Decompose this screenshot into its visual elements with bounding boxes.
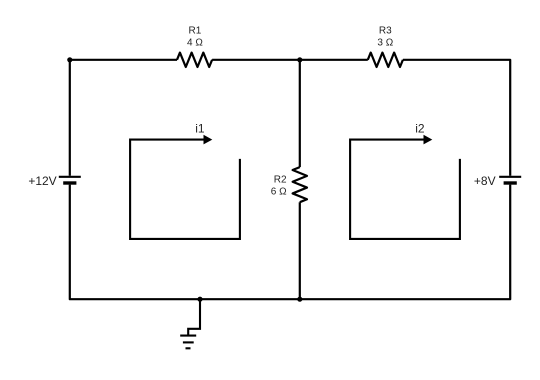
- junction dot node A (top-left): [67, 57, 72, 62]
- svg-text:+8V: +8V: [474, 174, 496, 188]
- svg-text:R2: R2: [274, 174, 287, 185]
- svg-text:+12V: +12V: [28, 174, 56, 188]
- battery V2 plates (+8V source): [499, 177, 521, 183]
- junction dot node B (top-middle): [297, 57, 302, 62]
- svg-text:6 Ω: 6 Ω: [271, 187, 287, 198]
- wire left: battery V1 negative plate down to bottom-left corner, bottom rail, and up to battery V2 negative plate: [70, 185, 510, 300]
- wire node B to R3 left lead: [300, 59, 368, 61]
- svg-text:R3: R3: [379, 26, 392, 37]
- mesh current loop i1: [130, 135, 240, 239]
- resistor R2: [293, 167, 307, 202]
- wire left: node A down to battery V1 positive plate: [69, 60, 71, 176]
- ground symbol on bottom rail: [180, 299, 200, 348]
- wire R3 right lead to node C (top-right corner): [403, 60, 510, 176]
- svg-text:i1: i1: [195, 121, 205, 135]
- junction dot node D (bottom-middle): [297, 297, 302, 302]
- junction dot ground node (bottom): [197, 297, 202, 302]
- wire R2 bottom lead to node D on bottom rail: [299, 202, 301, 299]
- svg-text:R1: R1: [189, 26, 202, 37]
- wire node B down to R2 top lead: [299, 60, 301, 167]
- resistor R3: [368, 53, 403, 67]
- mesh current loop i2: [350, 135, 460, 239]
- wire top-left: node A to R1 left lead: [70, 59, 177, 61]
- wire R1 right lead to node B: [212, 59, 300, 61]
- resistor R1: [177, 53, 212, 67]
- svg-text:3 Ω: 3 Ω: [377, 38, 393, 49]
- svg-text:i2: i2: [415, 121, 425, 135]
- svg-text:4 Ω: 4 Ω: [187, 38, 203, 49]
- battery V1 plates (+12V source): [59, 177, 81, 183]
